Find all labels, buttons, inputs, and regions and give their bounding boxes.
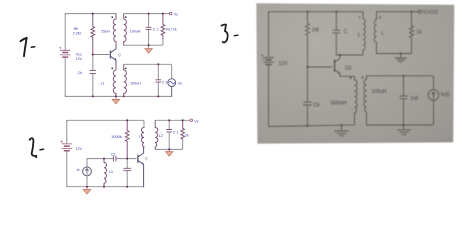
transformer L1 c2 [141, 128, 144, 148]
wire c2 base [127, 158, 136, 160]
svg-text:V(s)(t): V(s)(t) [423, 9, 438, 15]
resistor RL [161, 14, 165, 39]
transformer T1 secondary 100uH [124, 14, 127, 46]
svg-text:L: L [381, 31, 384, 37]
junction Rb top [92, 13, 94, 15]
svg-text:1M: 1M [312, 28, 319, 34]
wire c3 bottom left rail [269, 125, 355, 127]
svg-text:C 2: C 2 [162, 81, 168, 85]
battery 12V c2 [61, 141, 72, 151]
handwritten dash 3 [234, 34, 238, 37]
capacitor C1 [146, 14, 151, 46]
100uH polarity dot [362, 77, 364, 79]
svg-text:C: C [344, 29, 348, 35]
junction C1 bottom [148, 44, 150, 46]
junction 2k top [182, 119, 184, 121]
svg-text:Ve: Ve [178, 81, 182, 85]
svg-text:Cb: Cb [313, 102, 320, 108]
ground under Ie [83, 187, 91, 194]
svg-text:Cb: Cb [78, 71, 83, 75]
wire c2 left branch [67, 120, 68, 186]
wire c1 left branch [65, 14, 66, 97]
transistor Q3 [335, 55, 355, 80]
junction C1 top c2 [168, 119, 170, 121]
resistor 1M [306, 12, 310, 67]
svg-text:Vs: Vs [194, 119, 198, 123]
wire c1 output top [124, 13, 170, 15]
capacitor Cb [90, 55, 96, 97]
node collector Q3 [339, 54, 341, 56]
output inductor L right [374, 12, 376, 54]
terminal Vs node [169, 12, 172, 15]
junction C1 bottom c2 [168, 148, 170, 150]
wire c1 bottom rail [65, 95, 172, 97]
wire c3 base [308, 66, 332, 68]
T2 secondary polarity dot [125, 68, 127, 70]
svg-text:C3: C3 [111, 152, 116, 156]
wire c3 left branch [269, 12, 271, 127]
svg-text:12V: 12V [76, 147, 83, 151]
junction T2 secondary bottom [123, 96, 125, 98]
junction C1 top [148, 13, 150, 15]
wire c1 output bottom [124, 39, 163, 46]
wire c3 tank bottom [336, 54, 363, 56]
junction C2 bottom [157, 95, 159, 97]
wire c3 out bottom [377, 53, 412, 55]
svg-text:1k: 1k [417, 30, 423, 36]
wire c2 bottom rail [67, 186, 144, 188]
svg-text:C 1: C 1 [173, 130, 179, 134]
junction Ie bottom [86, 186, 88, 188]
svg-text:L3: L3 [109, 170, 113, 174]
wire c3 out top [377, 11, 419, 13]
battery 12V c3 [261, 54, 273, 64]
wire c1 input top [124, 64, 172, 78]
ground under C1 c2 [165, 149, 173, 156]
ground A c3 [335, 125, 349, 136]
svg-text:Vcc: Vcc [76, 52, 82, 56]
resistor Rb [91, 14, 95, 55]
resistor 1000k [125, 120, 129, 158]
junction 1nF top [402, 75, 404, 77]
inductor L3 [104, 159, 107, 187]
junction L3 top [103, 158, 105, 160]
svg-text:Q: Q [118, 53, 121, 57]
handwritten label 1 [20, 38, 26, 56]
svg-text:1000k: 1000k [111, 134, 122, 139]
handwritten dash 2 [40, 148, 44, 151]
capacitor C2b [124, 159, 131, 187]
tank capacitor C [333, 12, 340, 55]
wire c3 top rail [269, 12, 364, 14]
capacitor C2 [156, 64, 161, 96]
junction L3 bottom [103, 186, 105, 188]
wire c2 top rail [67, 120, 144, 127]
handwritten label 2 [30, 138, 37, 157]
terminal Vs(t) [419, 10, 422, 13]
capacitor Cb c3 [304, 67, 312, 126]
junction C2 top [157, 63, 159, 65]
svg-text:L1: L1 [139, 135, 143, 139]
svg-text:Ie(t): Ie(t) [441, 92, 450, 98]
tank inductor L left [363, 12, 365, 55]
svg-text:12V: 12V [76, 57, 83, 61]
ground under C1 [145, 45, 153, 53]
svg-text:Q: Q [145, 157, 148, 161]
source Ie [83, 159, 92, 187]
junction RL top [162, 13, 164, 15]
junction C2b bottom [126, 186, 128, 188]
svg-text:RL=1k: RL=1k [166, 27, 177, 31]
svg-text:25uH: 25uH [101, 30, 110, 34]
svg-text:L2: L2 [159, 134, 163, 138]
tank L polarity dot [359, 17, 361, 19]
resistor 2k [181, 120, 185, 139]
transformer T2 secondary 100uH [124, 64, 127, 96]
transformer T2 primary L1 [113, 65, 116, 97]
junction C top c3 [335, 11, 337, 13]
node base Q3 [306, 66, 308, 68]
junction ground A c3 [340, 124, 342, 126]
svg-text:1nF: 1nF [410, 96, 419, 102]
svg-text:12V: 12V [279, 61, 289, 67]
T1 primary polarity dot [112, 16, 114, 18]
source Ve [168, 79, 176, 97]
transformer 100uH c3 [364, 76, 367, 125]
svg-text:Rb: Rb [74, 27, 79, 31]
junction Cb bottom [92, 95, 94, 97]
wire c3 sec bottom [367, 100, 434, 125]
capacitor C3 (series) [104, 156, 127, 161]
output L polarity dot [379, 17, 381, 19]
battery Vcc [59, 47, 70, 57]
handwritten dash 1 [31, 46, 34, 49]
wire c3 sec top [367, 76, 434, 90]
transformer L2 c2 [155, 120, 158, 149]
svg-text:Q3: Q3 [345, 65, 352, 71]
svg-text:L: L [358, 33, 361, 39]
svg-text:100uH: 100uH [372, 89, 387, 95]
handwritten label 3 [221, 25, 227, 43]
transformer 500mH [355, 80, 358, 125]
source Ie(t) [428, 90, 439, 101]
capacitor C1 c2 [167, 120, 172, 149]
resistor 1k [410, 12, 414, 54]
500mH polarity dot [350, 77, 352, 79]
transformer T1 primary 25uH [113, 14, 116, 45]
transistor Q1 [110, 45, 116, 65]
T2 primary polarity dot [112, 68, 114, 70]
junction 1nF bottom [402, 124, 404, 126]
capacitor 1nF [400, 76, 407, 125]
svg-text:500mH: 500mH [331, 101, 348, 107]
svg-text:L1: L1 [101, 81, 105, 85]
svg-text:Ie: Ie [77, 168, 80, 172]
junction 1000k top [126, 119, 128, 121]
wire c2 out bottom [155, 139, 183, 149]
svg-text:2k: 2k [185, 133, 189, 137]
ground main c1 [112, 96, 120, 104]
wire c1 base [93, 54, 109, 56]
transistor Q2 [138, 148, 144, 187]
svg-text:100uH: 100uH [130, 81, 141, 85]
wire c2 out top [155, 119, 190, 121]
svg-text:C 1: C 1 [153, 27, 159, 31]
ground out loop [395, 54, 407, 62]
node base Q1 [92, 54, 94, 56]
svg-text:Vs: Vs [174, 12, 178, 16]
wire c1 top rail [65, 14, 116, 15]
junction L1 bottom [115, 95, 117, 97]
T1 secondary polarity dot [125, 16, 127, 18]
junction Cb bottom c3 [306, 125, 308, 127]
ground B c3 [397, 125, 411, 135]
wire c2 emitter node [87, 158, 104, 160]
svg-text:100uH: 100uH [130, 30, 141, 34]
junction 1k top c3 [410, 11, 412, 13]
photo background [256, 3, 454, 143]
terminal Vs c2 [190, 119, 193, 122]
junction 1M top c3 [306, 11, 308, 13]
junction ground C c3 [400, 52, 402, 54]
node base Q2 [126, 158, 128, 160]
svg-text:2.2M: 2.2M [73, 32, 81, 36]
